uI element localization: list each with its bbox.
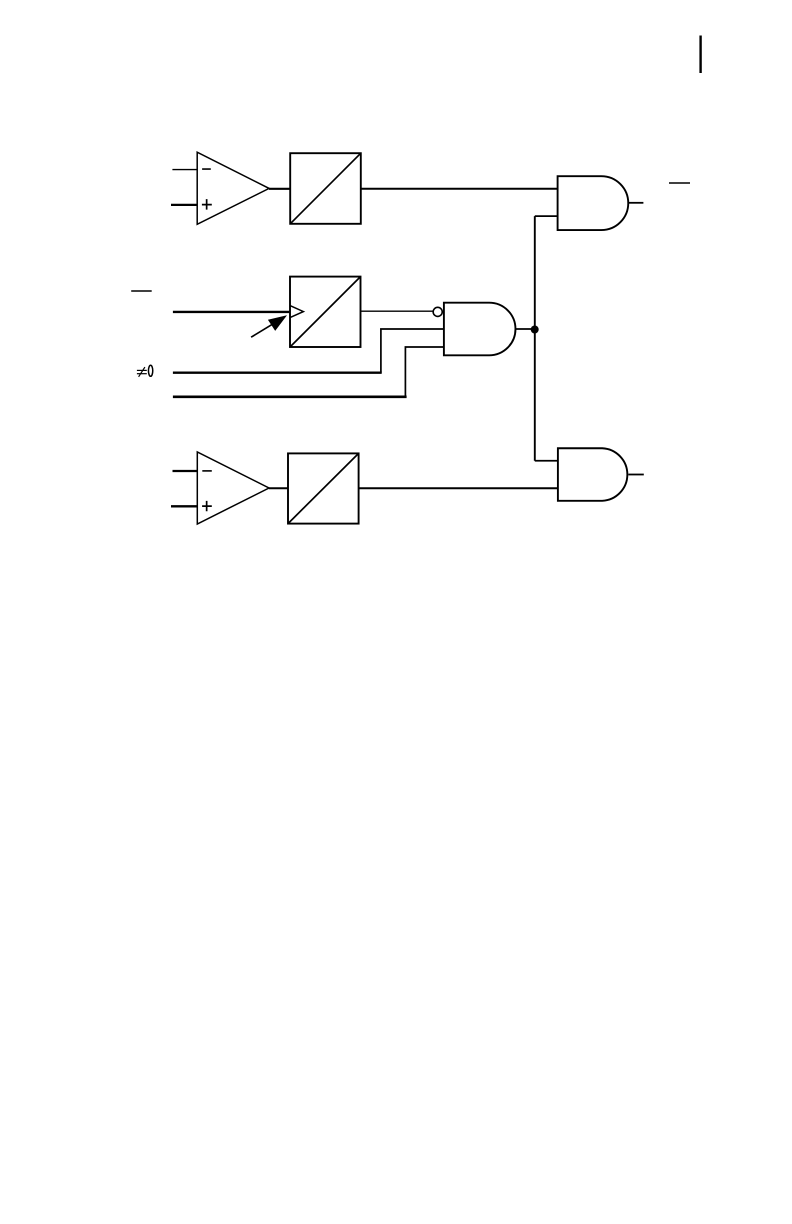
overline label at G1 output — [669, 182, 690, 184]
clock input wire — [173, 311, 290, 313]
A1 diagonal — [290, 153, 361, 224]
junction node — [531, 326, 539, 334]
U1 minus label — [202, 168, 211, 170]
wire A1 output to AND gate G1 — [361, 188, 558, 190]
not-equal-zero input wire — [173, 371, 382, 373]
AND gate G1 — [558, 176, 629, 230]
one-shot A1 (box with diagonal) — [290, 153, 361, 224]
U2 minus input wire — [173, 470, 198, 472]
one-shot A3 (box with diagonal) — [288, 453, 359, 523]
A2 clock chevron — [290, 306, 303, 318]
G1 lower input stub — [535, 215, 558, 217]
comparator U2 — [197, 452, 269, 524]
wire A3 output to AND gate G3 — [359, 487, 558, 489]
AND gate G3 — [558, 448, 627, 501]
overline label at clock input — [131, 290, 152, 292]
A2 diagonal — [290, 277, 361, 347]
one-shot A2 (box with diagonal) — [290, 277, 361, 347]
bottom input wire — [173, 395, 407, 398]
U2 plus label — [202, 501, 212, 511]
G3 output stub — [628, 474, 644, 476]
change bar (margin revision bar) — [699, 36, 701, 74]
wire U1 output to one-shot A1 — [269, 188, 290, 190]
vertical bus wire G1 to G3 — [534, 216, 536, 461]
AND gate G2 — [444, 303, 516, 356]
G3 top input stub — [535, 460, 558, 462]
G2 bottom input wire — [405, 347, 444, 397]
label not-equal-zero — [137, 365, 153, 377]
G1 output stub — [628, 202, 643, 204]
U2 plus input wire — [171, 505, 197, 507]
U1 plus label — [202, 199, 212, 210]
A3 diagonal — [288, 453, 359, 523]
G2 output wire — [515, 328, 535, 330]
G2 input bubble — [433, 307, 442, 316]
U2 minus label — [202, 470, 212, 472]
wire U2 output to one-shot A3 — [269, 487, 288, 489]
G2 middle input wire — [381, 329, 444, 373]
edge-trigger arrow — [251, 315, 287, 337]
U1 minus input wire — [172, 169, 197, 171]
comparator U1 — [197, 152, 269, 224]
wire A2 output to G2 bubble — [361, 310, 434, 312]
U1 plus input wire — [171, 204, 197, 206]
